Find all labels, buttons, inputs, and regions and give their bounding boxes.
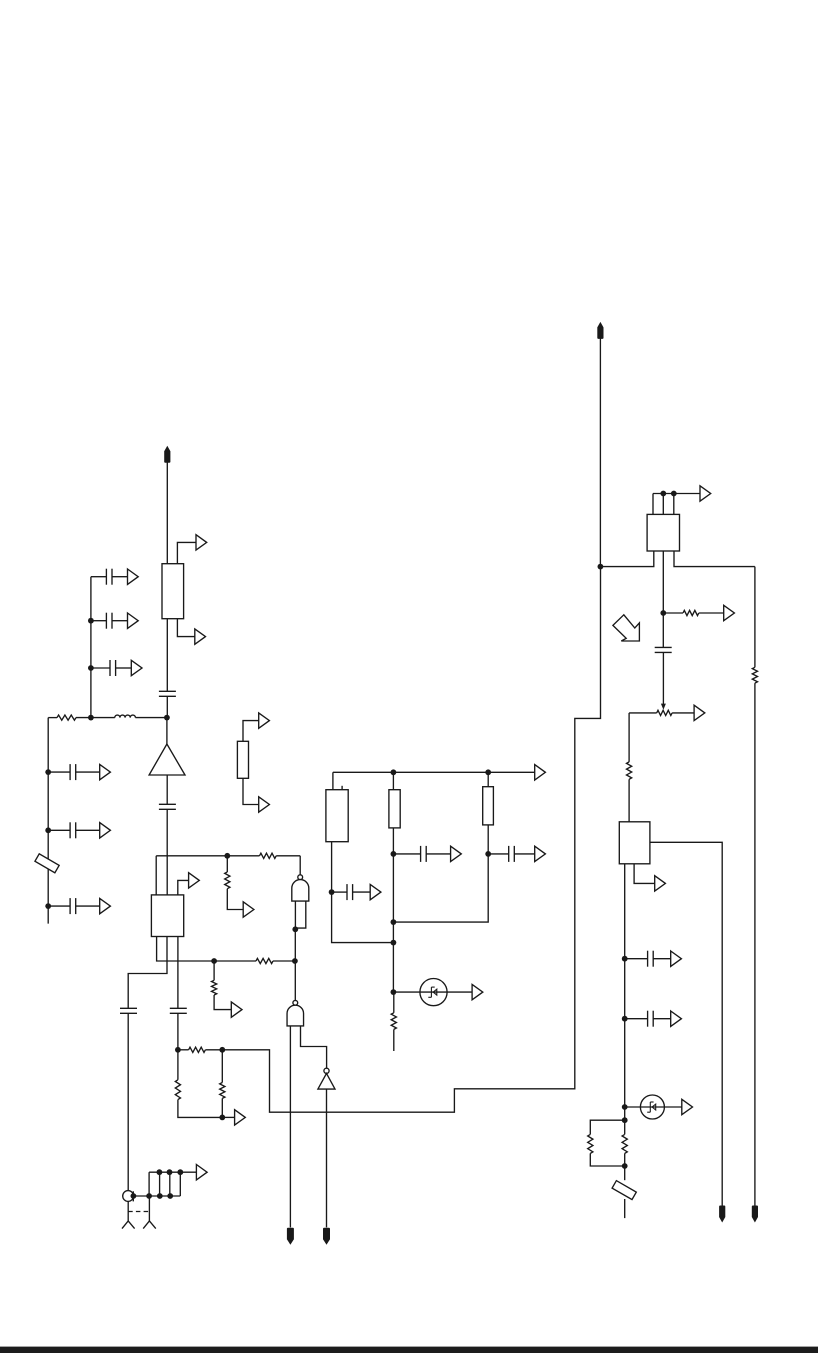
wire (166, 718, 168, 744)
node AL (622, 1163, 628, 1169)
wire (177, 1013, 179, 1050)
node AC (391, 989, 397, 995)
wire (148, 1196, 150, 1221)
node AH (622, 956, 628, 962)
wire (393, 854, 488, 922)
amplifier U1 (149, 744, 185, 775)
potentiometer VR1 (657, 710, 672, 715)
connector arrow P21 (700, 486, 711, 501)
wire (76, 771, 100, 773)
wire (48, 905, 70, 907)
wire (652, 494, 654, 515)
resistor R12 (483, 787, 494, 825)
wire (155, 856, 157, 895)
wire (214, 995, 231, 1010)
capacitor C4 (110, 660, 116, 676)
wire (243, 778, 258, 804)
wire (331, 842, 333, 892)
connector arrow P17 (370, 884, 381, 899)
resistor R3 (260, 853, 277, 858)
node A (88, 715, 94, 721)
wire (289, 1026, 291, 1228)
node Y (391, 851, 397, 857)
wire (353, 891, 370, 893)
wire (156, 855, 259, 857)
ic U2 (151, 895, 183, 937)
wire (625, 958, 648, 960)
wire (332, 892, 394, 943)
wire (47, 718, 49, 924)
wire (166, 696, 168, 717)
resistor R16 (588, 1134, 593, 1153)
wire (673, 494, 675, 515)
shield dashed wire (128, 1211, 149, 1213)
wire (674, 551, 755, 567)
capacitor C13 (509, 846, 515, 862)
resistor R4 (225, 872, 230, 889)
node AB (391, 940, 397, 946)
fuse F1 (35, 854, 59, 873)
wire (91, 576, 107, 578)
wire (393, 853, 420, 855)
adjust arrow (613, 615, 640, 641)
wire (178, 1049, 189, 1051)
resistor R14 (683, 610, 699, 615)
wire (48, 717, 57, 719)
wire (112, 620, 127, 622)
connector arrow P27 (682, 1099, 693, 1114)
sensor M1 (420, 979, 447, 1006)
inverter U5 body (318, 1073, 335, 1089)
wire (662, 551, 664, 613)
wire (48, 829, 70, 831)
wire (754, 567, 756, 668)
terminal E6 (752, 1206, 758, 1223)
node C (88, 618, 94, 624)
node J (211, 958, 217, 964)
connector arrow P26 (671, 1011, 682, 1026)
wire (177, 619, 194, 637)
terminal E5 (719, 1206, 725, 1223)
wire (295, 901, 305, 928)
wire (273, 960, 295, 962)
fuse F2 (612, 1181, 636, 1200)
node AI (622, 1016, 628, 1022)
resistor R10 (326, 790, 348, 842)
sensor M2 (640, 1095, 664, 1119)
node Z (485, 851, 491, 857)
connector arrow P4 (128, 613, 139, 628)
node G (45, 903, 51, 909)
capacitor C14 (655, 647, 672, 652)
wire (653, 958, 671, 960)
wire (628, 779, 630, 822)
gate U4 bubble (293, 1000, 298, 1005)
wire (600, 551, 653, 567)
node S (157, 1169, 163, 1175)
node U (177, 1169, 183, 1175)
wire (426, 853, 450, 855)
wire (590, 1120, 624, 1134)
node I (292, 926, 298, 932)
node AG (660, 610, 666, 616)
terminal E3 (287, 1228, 294, 1245)
connector arrow P16 (535, 765, 546, 780)
connector arrow P13 (231, 1002, 242, 1017)
wire (243, 721, 269, 742)
wire (76, 905, 100, 907)
wire (392, 828, 394, 854)
connector arrow P10 (259, 797, 270, 812)
wire (76, 829, 100, 831)
wire (628, 713, 630, 762)
resistor R6 (212, 980, 217, 995)
wire (91, 620, 107, 622)
capacitor C6 (70, 822, 76, 838)
wire (662, 613, 664, 647)
wire (166, 619, 168, 692)
wire (213, 961, 215, 980)
node AD (598, 564, 604, 570)
terminal E4 (323, 1228, 330, 1245)
resistor R18 (752, 667, 757, 683)
inductor L1 (115, 715, 136, 718)
ic U6 (647, 514, 679, 551)
wire (177, 937, 179, 1009)
wire (653, 493, 700, 495)
wire (128, 937, 167, 1009)
connector arrow P14 (235, 1110, 246, 1125)
wire (332, 891, 347, 893)
wire (699, 612, 724, 614)
wire (148, 1172, 150, 1196)
connector arrow P18 (451, 846, 462, 861)
capacitor C16 (648, 1011, 654, 1027)
node AA (391, 919, 397, 925)
node M (219, 1047, 225, 1053)
capacitor C12 (421, 846, 427, 862)
resistor R17 (622, 1134, 627, 1153)
antenna terminal E1 (164, 446, 170, 463)
wire (393, 991, 472, 993)
wire (624, 864, 626, 1135)
ic U7 (619, 822, 650, 864)
wire (177, 1050, 179, 1080)
connector arrow P11 (189, 873, 200, 888)
wire (662, 494, 664, 515)
wire (127, 1013, 129, 1190)
ground lead (143, 1221, 156, 1229)
node AF (671, 491, 677, 497)
connector arrow P23 (694, 705, 705, 720)
wire (393, 992, 395, 1013)
wire (227, 889, 243, 910)
wire (294, 901, 296, 929)
connector arrow P15 (196, 1165, 207, 1180)
connector arrow P8 (100, 898, 111, 913)
connector arrow P24 (655, 876, 666, 891)
wire (488, 853, 509, 855)
wire (133, 1195, 180, 1197)
connector arrow P20 (472, 984, 483, 999)
wire (222, 567, 600, 1113)
capacitor C10 (170, 1008, 187, 1013)
resistor R2 (237, 741, 248, 778)
resistor R13 (391, 1013, 396, 1030)
connector arrow P1 (196, 535, 207, 550)
wire (48, 771, 70, 773)
gate U4 body (287, 1005, 304, 1026)
wire (166, 775, 168, 804)
connector arrow P6 (100, 764, 111, 779)
wire (76, 717, 115, 719)
wire (221, 1050, 223, 1083)
wire (341, 786, 343, 790)
node T (167, 1169, 173, 1175)
wire (590, 1153, 624, 1166)
gate U3 bubble (298, 875, 303, 880)
connector arrow P19 (535, 846, 546, 861)
node E (45, 769, 51, 775)
connector J1 circle (123, 1191, 134, 1202)
wire (159, 1172, 161, 1196)
wire (157, 937, 256, 962)
resistor R7 (189, 1047, 206, 1052)
node N (219, 1115, 225, 1121)
connector arrow P9 (259, 713, 270, 728)
capacitor C1 (159, 691, 176, 696)
wire (653, 1018, 671, 1020)
wire (624, 1153, 626, 1180)
resistor R11 (389, 790, 400, 828)
wire (149, 1171, 196, 1173)
wire (487, 772, 489, 786)
wiper arrowhead (661, 704, 666, 710)
capacitor C8 (159, 804, 176, 809)
wire (650, 842, 722, 1206)
capacitor C3 (106, 613, 112, 629)
node K (292, 958, 298, 964)
wire (625, 1106, 683, 1108)
wire (222, 1116, 234, 1118)
capacitor C7 (70, 898, 76, 914)
node O (131, 1193, 137, 1199)
wire (514, 853, 534, 855)
wire (132, 1191, 134, 1201)
wire (299, 856, 301, 875)
ground lead (122, 1221, 135, 1229)
wire (672, 712, 694, 714)
wire (599, 338, 601, 566)
resistor R1 (57, 715, 76, 720)
connector arrow P7 (100, 823, 111, 838)
wire (392, 854, 394, 992)
node H (224, 853, 230, 859)
resistor R8 (175, 1080, 180, 1100)
wire (625, 1018, 648, 1020)
node D (88, 665, 94, 671)
node Q (157, 1193, 163, 1199)
node L (175, 1047, 181, 1053)
wire (301, 1026, 327, 1068)
node X (329, 889, 335, 895)
wire (135, 717, 167, 719)
wire (629, 712, 657, 714)
footer bar (0, 1347, 818, 1353)
wire (221, 1098, 223, 1117)
wire (392, 772, 394, 789)
wire (487, 825, 489, 854)
connector arrow P12 (243, 902, 254, 917)
wire (91, 667, 110, 669)
wire (179, 1172, 181, 1196)
node F (45, 827, 51, 833)
wire (178, 1100, 222, 1118)
node AE (660, 491, 666, 497)
wire (90, 577, 92, 718)
node R (167, 1193, 173, 1199)
inverter U5 bubble (324, 1068, 329, 1073)
capacitor C9 (120, 1008, 137, 1013)
connector arrow P22 (724, 605, 735, 620)
node V (391, 769, 397, 775)
capacitor C11 (347, 884, 353, 900)
wire (166, 809, 168, 895)
wire (178, 880, 189, 895)
wire (624, 1199, 626, 1218)
wire (177, 542, 195, 563)
wire (169, 1172, 171, 1196)
wire (166, 462, 168, 563)
wire (393, 1029, 395, 1051)
wire (294, 929, 296, 1000)
capacitor C5 (70, 764, 76, 780)
wire (634, 864, 654, 884)
wire (127, 1201, 129, 1221)
node AJ (622, 1104, 628, 1110)
resistor R9 (220, 1083, 225, 1099)
connector arrow P3 (128, 569, 139, 584)
capacitor C15 (648, 951, 654, 967)
connector arrow P2 (195, 629, 206, 644)
wire (663, 612, 683, 614)
node W (485, 769, 491, 775)
wire (112, 576, 127, 578)
wire (662, 652, 664, 704)
resistor R5 (256, 958, 273, 963)
filter FL1 (162, 564, 184, 619)
gate U3 body (292, 880, 309, 902)
connector arrow P5 (131, 660, 142, 675)
wire (326, 1089, 328, 1227)
wire (116, 667, 131, 669)
resistor R15 (627, 762, 632, 779)
antenna terminal E2 (597, 322, 603, 339)
connector arrow P25 (671, 951, 682, 966)
wire (276, 855, 300, 857)
node P (146, 1193, 152, 1199)
node B (164, 715, 170, 721)
wire (754, 683, 756, 1206)
wire (333, 771, 535, 773)
wire (226, 856, 228, 872)
capacitor C2 (106, 569, 112, 585)
wire (332, 772, 334, 789)
node AK (622, 1117, 628, 1123)
wire (205, 1049, 222, 1051)
